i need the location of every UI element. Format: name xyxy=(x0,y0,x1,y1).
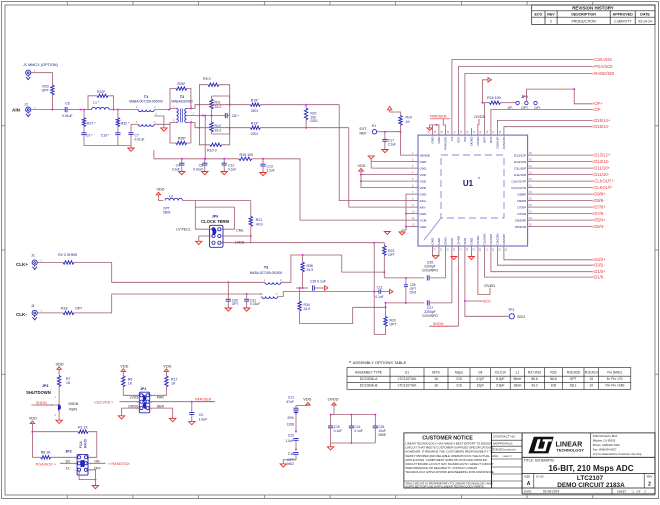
wire T3 secondary to rails xyxy=(281,255,342,282)
svg-text:E1: E1 xyxy=(372,124,376,128)
svg-text:Fin (MHz): Fin (MHz) xyxy=(607,370,621,374)
resistor R34 xyxy=(299,288,301,301)
svg-text:R8 1K: R8 1K xyxy=(41,451,51,455)
svg-text:CLK-: CLK- xyxy=(16,312,27,317)
svg-text:MABA-007159-000000: MABA-007159-000000 xyxy=(250,271,283,275)
svg-text:D3/D2P: D3/D2P xyxy=(502,234,506,245)
svg-text:JP3: JP3 xyxy=(42,384,48,388)
svg-text:ASSEMBLY TYPE: ASSEMBLY TYPE xyxy=(355,370,383,374)
svg-text:8.2pF: 8.2pF xyxy=(496,377,504,381)
svg-text:GND: GND xyxy=(431,237,435,245)
svg-text:OFP: OFP xyxy=(483,137,487,143)
svg-text:49.9: 49.9 xyxy=(256,222,263,226)
svg-text:BITS: BITS xyxy=(432,370,440,374)
wire CLK+ to T3 xyxy=(74,263,265,283)
capacitor C30 xyxy=(227,282,229,299)
power arrow VDD for R14 xyxy=(388,107,392,110)
svg-text:VDD: VDD xyxy=(420,186,427,190)
svg-text:D11/10P: D11/10P xyxy=(514,166,526,170)
svg-text:R16 100: R16 100 xyxy=(487,96,500,100)
svg-text:Milpitas, CA 95035: Milpitas, CA 95035 xyxy=(593,439,616,443)
wire C27 row xyxy=(386,302,425,304)
svg-text:OPT: OPT xyxy=(390,323,397,327)
svg-text:R12: R12 xyxy=(215,124,221,128)
svg-text:J3: J3 xyxy=(31,254,35,258)
svg-text:LVDS: LVDS xyxy=(130,396,140,400)
svg-text:« RAND/SDI: « RAND/SDI xyxy=(108,462,129,466)
svg-text:MABA-007159-000000: MABA-007159-000000 xyxy=(129,100,163,104)
svg-text:«D9/8+: «D9/8+ xyxy=(592,192,606,197)
svg-text:MABAES0060: MABAES0060 xyxy=(171,99,192,103)
wire T1 secondary left to C7 xyxy=(131,123,138,125)
svg-text:VDD: VDD xyxy=(420,179,427,183)
ground arrow near R23 xyxy=(384,232,390,235)
svg-text:«PGA/SCK: «PGA/SCK xyxy=(592,64,613,69)
svg-text:DATE: DATE xyxy=(640,13,650,17)
svg-text:J1 MMCX (OPTION): J1 MMCX (OPTION) xyxy=(23,63,59,67)
svg-text:D15/14N: D15/14N xyxy=(502,137,506,149)
wire AIN line xyxy=(33,109,65,111)
svg-text:16: 16 xyxy=(434,377,438,381)
svg-text:5< Fin <70: 5< Fin <70 xyxy=(607,377,623,381)
svg-text:OVDD: OVDD xyxy=(476,235,480,245)
svg-text:16: 16 xyxy=(434,384,438,388)
svg-text:VDD: VDD xyxy=(120,364,128,368)
resistor R7 xyxy=(57,376,60,387)
svg-text:0.1uF: 0.1uF xyxy=(334,429,342,433)
svg-text:0603: 0603 xyxy=(163,210,171,214)
ground JP2 loop xyxy=(79,470,95,480)
svg-text:«CS/LVDS: «CS/LVDS xyxy=(592,57,612,62)
svg-text:GND: GND xyxy=(420,160,428,164)
svg-text:SHUTDOWN: SHUTDOWN xyxy=(26,390,51,395)
wire T2 center tap to VCM rail xyxy=(204,116,206,159)
svg-text:T1: T1 xyxy=(144,95,148,99)
wire JP6 pin3 ground xyxy=(199,236,212,241)
wire SCK to PGA/SCK xyxy=(458,67,592,129)
wire T1 to T2 lower xyxy=(154,123,176,125)
ground JP1 left xyxy=(122,408,141,416)
svg-text:REF: REF xyxy=(360,131,368,135)
svg-text:*: * xyxy=(478,177,480,183)
svg-text:1630 McCarthy Blvd.: 1630 McCarthy Blvd. xyxy=(593,434,618,438)
test point TP1 xyxy=(465,301,509,316)
svg-text:Phone: (408)432-1900: Phone: (408)432-1900 xyxy=(593,443,620,447)
svg-text:1206: 1206 xyxy=(287,423,295,427)
svg-text:*: * xyxy=(349,360,351,365)
svg-text:L1 *: L1 * xyxy=(93,100,100,104)
svg-text:0402: 0402 xyxy=(287,462,295,466)
svg-text:LV PECL: LV PECL xyxy=(176,228,191,232)
resistor R23 xyxy=(383,243,385,246)
svg-text:REVISION HISTORY: REVISION HISTORY xyxy=(572,6,614,11)
svg-text:SHEET: SHEET xyxy=(617,489,627,493)
svg-text:24.9: 24.9 xyxy=(307,268,314,272)
svg-text:D5/D4N: D5/D4N xyxy=(515,225,526,229)
svg-text:OPT: OPT xyxy=(570,377,577,381)
svg-text:D15/14P: D15/14P xyxy=(496,137,500,149)
svg-text:0.1uF: 0.1uF xyxy=(354,429,362,433)
svg-text:OVDD: OVDD xyxy=(474,115,485,119)
ground arrow U1 top GND pins xyxy=(432,125,439,128)
wire LVDS clock line from JP6 xyxy=(222,242,384,244)
svg-text:TITLE: SCHEMATIC: TITLE: SCHEMATIC xyxy=(524,459,555,463)
ground for J1 xyxy=(27,75,29,77)
net PAR/SER at JP1 xyxy=(149,401,215,403)
svg-text:D9/8N: D9/8N xyxy=(517,199,526,203)
svg-text:ECO: ECO xyxy=(535,13,543,17)
wire to L1 xyxy=(81,109,92,111)
svg-text:R15 100: R15 100 xyxy=(240,153,254,157)
svg-text:R26,R28: R26,R28 xyxy=(567,370,580,374)
svg-text:SDO: SDO xyxy=(517,315,525,319)
svg-text:TP1: TP1 xyxy=(508,308,514,312)
svg-text:SHDN: SHDN xyxy=(433,322,444,326)
svg-text:0201: 0201 xyxy=(251,132,259,136)
svg-text:C.MAYOTT: C.MAYOTT xyxy=(502,455,513,458)
svg-text:SHDN: SHDN xyxy=(457,236,461,245)
resistor R37 across pair xyxy=(305,104,307,106)
resistor R6 xyxy=(122,376,125,387)
svg-text:APPROVED: APPROVED xyxy=(613,13,634,17)
svg-text:33.2: 33.2 xyxy=(215,105,222,109)
svg-text:VDD: VDD xyxy=(56,362,64,366)
svg-text:1.0uF: 1.0uF xyxy=(199,417,208,421)
svg-text:R10 0: R10 0 xyxy=(207,148,217,152)
svg-text:0201: 0201 xyxy=(311,119,319,123)
U1 bottom pins xyxy=(431,234,509,253)
svg-text:IC NO.: IC NO. xyxy=(536,475,545,479)
wire lower line through box xyxy=(199,127,229,129)
svg-text:1K: 1K xyxy=(128,382,133,386)
svg-text:«RAND/SDI: «RAND/SDI xyxy=(592,71,614,76)
wire D15/14N to label xyxy=(504,127,592,128)
svg-text:03-18-2014: 03-18-2014 xyxy=(543,489,560,493)
svg-text:VDD: VDD xyxy=(420,173,427,177)
svg-text:«OF-: «OF- xyxy=(592,107,602,112)
svg-text:0.01uF: 0.01uF xyxy=(62,114,73,118)
svg-text:70< Fin <180: 70< Fin <180 xyxy=(605,384,625,388)
svg-text:OPT: OPT xyxy=(232,302,239,306)
svg-text:GND: GND xyxy=(420,166,428,170)
resistor R20 xyxy=(384,316,387,326)
op-amp U1 LTC2107 xyxy=(418,135,528,246)
svg-text:ENC+: ENC+ xyxy=(444,236,448,245)
svg-text:C9 *: C9 * xyxy=(86,134,93,138)
svg-text:86.6: 86.6 xyxy=(550,377,557,381)
capacitor C15 xyxy=(330,415,332,426)
svg-text:CS: CS xyxy=(450,137,454,141)
svg-text:EXT: EXT xyxy=(360,127,368,131)
svg-text:1K: 1K xyxy=(171,382,176,386)
svg-text:R26*: R26* xyxy=(178,82,186,86)
svg-text:R2 0 OHMS: R2 0 OHMS xyxy=(58,253,78,257)
wire JP6 pin4 to R21 xyxy=(221,235,251,237)
svg-text:D9/8P: D9/8P xyxy=(517,192,526,196)
resistor R21 xyxy=(250,201,252,217)
wire center tap mid rail xyxy=(187,115,226,117)
svg-text:«D7/6+: «D7/6+ xyxy=(592,205,606,210)
svg-text:33.2: 33.2 xyxy=(215,128,222,132)
svg-text:«D3/2-: «D3/2- xyxy=(592,263,605,268)
svg-text:VDD: VDD xyxy=(157,188,165,192)
svg-text:CS/LVDS »: CS/LVDS » xyxy=(94,401,113,405)
svg-text:4.7pF: 4.7pF xyxy=(476,377,484,381)
svg-text:«D13/12-: «D13/12- xyxy=(592,159,610,164)
svg-text:10: 10 xyxy=(589,384,593,388)
svg-text:AIN: AIN xyxy=(12,107,21,112)
svg-text:R11: R11 xyxy=(215,101,221,105)
svg-text:«D13/12+: «D13/12+ xyxy=(592,153,611,158)
wire OFN to OF- xyxy=(491,110,592,129)
svg-text:«D15/14-: «D15/14- xyxy=(592,124,610,129)
svg-text:18nH: 18nH xyxy=(513,384,522,388)
svg-text:RAND: RAND xyxy=(84,438,88,448)
ground OVDD bank xyxy=(331,442,376,444)
svg-text:CML: CML xyxy=(236,229,244,233)
svg-text:R33: R33 xyxy=(550,370,556,374)
svg-text:OF: OF xyxy=(637,489,641,493)
svg-text:VDD: VDD xyxy=(358,164,366,168)
svg-text:D5/D4P: D5/D4P xyxy=(515,218,526,222)
svg-text:D7/6P: D7/6P xyxy=(517,205,526,209)
capacitor C8 xyxy=(224,113,226,118)
svg-text:0.1uF: 0.1uF xyxy=(228,168,236,172)
svg-text:C.MAYOTT: C.MAYOTT xyxy=(614,19,631,23)
wire AIN- drop to U1 xyxy=(349,128,411,207)
wire lower signal line xyxy=(230,127,251,129)
svg-text:R18: R18 xyxy=(61,307,67,311)
svg-text:GND: GND xyxy=(437,237,441,245)
capacitor C3 xyxy=(191,402,193,413)
svg-text:D1/D0P: D1/D0P xyxy=(489,234,493,245)
svg-text:68.1: 68.1 xyxy=(570,384,577,388)
svg-text:PAR/SER: PAR/SER xyxy=(430,115,447,119)
svg-text:C3: C3 xyxy=(199,413,203,417)
svg-text:0201: 0201 xyxy=(251,109,259,113)
svg-text:105: 105 xyxy=(551,384,557,388)
svg-text:VDD: VDD xyxy=(303,397,311,401)
svg-text:43.2: 43.2 xyxy=(531,384,538,388)
svg-text:1K: 1K xyxy=(406,120,411,124)
svg-text:COG/NPO: COG/NPO xyxy=(422,269,438,273)
power arrow OVDD right xyxy=(482,80,488,102)
U1 left pins xyxy=(411,152,430,229)
svg-text:GND: GND xyxy=(437,136,441,144)
svg-text:REV: REV xyxy=(547,13,555,17)
svg-text:0.1uF: 0.1uF xyxy=(375,295,383,299)
svg-text:«CLKOUT-: «CLKOUT- xyxy=(592,185,613,190)
svg-text:VDD: VDD xyxy=(29,417,37,421)
svg-text:«D5/4+: «D5/4+ xyxy=(592,218,606,223)
svg-text:03-14-14: 03-14-14 xyxy=(638,19,652,23)
net SHDN near U1 xyxy=(429,253,458,326)
svg-text:3.9pF: 3.9pF xyxy=(496,384,504,388)
ground arrows below U1 GND pins xyxy=(432,253,439,256)
ground rail below input caps xyxy=(84,145,131,147)
svg-text:R33*: R33* xyxy=(97,90,106,94)
wire J1 to R22 xyxy=(33,73,52,85)
wire to C26 row xyxy=(384,272,424,278)
svg-text:24.9: 24.9 xyxy=(304,307,311,311)
svg-text:«D1/0+: «D1/0+ xyxy=(592,269,606,274)
svg-text:C10 *: C10 * xyxy=(101,134,110,138)
svg-text:2: 2 xyxy=(648,482,651,488)
capacitor C27 xyxy=(426,300,428,305)
resistor R27 shunt xyxy=(83,110,85,118)
svg-text:0.01uF: 0.01uF xyxy=(135,138,145,142)
wire T3 upper to R23 node xyxy=(342,271,384,273)
svg-text:OVDD: OVDD xyxy=(476,136,480,146)
svg-text:VCM: VCM xyxy=(420,218,427,222)
svg-text:DC2183A-B: DC2183A-B xyxy=(360,384,378,388)
approvals block xyxy=(491,433,522,488)
svg-text:SIZE: SIZE xyxy=(524,475,530,479)
svg-text:AIN-: AIN- xyxy=(420,205,426,209)
svg-text:«CLKOUT+: «CLKOUT+ xyxy=(592,179,614,184)
svg-text:APPROVALS: APPROVALS xyxy=(495,441,513,445)
wire upper signal line xyxy=(230,104,251,106)
capacitor C31 xyxy=(246,294,248,299)
wire upper line through box xyxy=(199,104,229,106)
capacitor C17 xyxy=(384,131,386,133)
svg-text:DC2183A-A: DC2183A-A xyxy=(360,377,378,381)
title block frame xyxy=(522,433,655,494)
wire JP6 pin6 LVDS line xyxy=(221,242,222,244)
resistor R16 xyxy=(481,102,483,104)
svg-text:R27 *: R27 * xyxy=(87,122,96,126)
wire D15/14P to label xyxy=(497,121,592,129)
svg-text:L1: L1 xyxy=(516,370,520,374)
svg-text:PAR/SER: PAR/SER xyxy=(195,398,212,402)
wire T1 to T2 upper xyxy=(154,109,176,110)
svg-text:J4: J4 xyxy=(31,304,35,308)
svg-text:R13*: R13* xyxy=(251,122,259,126)
svg-text:ENG.: ENG. xyxy=(492,454,499,458)
wire CLK- to T3 xyxy=(74,294,263,313)
svg-text:R19,R13: R19,R13 xyxy=(585,370,598,374)
svg-text:C8: C8 xyxy=(478,370,482,374)
svg-text:86.6: 86.6 xyxy=(531,377,538,381)
svg-text:CLKOUTN: CLKOUTN xyxy=(511,186,526,190)
svg-text:GND: GND xyxy=(420,192,428,196)
svg-text:1.0uF: 1.0uF xyxy=(285,439,294,443)
svg-text:PGA: PGA xyxy=(79,441,83,449)
svg-text:D1/D0N: D1/D0N xyxy=(483,234,487,245)
svg-text:OFN: OFN xyxy=(489,137,493,144)
svg-text:OVDD: OVDD xyxy=(328,397,339,401)
wire SDI to RAND/SDI xyxy=(465,74,592,129)
wire CS to CS/LVDS xyxy=(452,60,592,129)
svg-text:J2: J2 xyxy=(25,103,29,107)
vertical bus1 xyxy=(373,243,375,296)
svg-text:«D7/6-: «D7/6- xyxy=(592,211,605,216)
termination inner box xyxy=(212,95,230,97)
svg-text:VDD: VDD xyxy=(163,364,171,368)
svg-text:GND: GND xyxy=(420,212,428,216)
svg-text:M.MAHONEY: M.MAHONEY xyxy=(504,449,517,452)
wire AIN+ drop to U1 xyxy=(339,105,411,201)
svg-text:0.01uF: 0.01uF xyxy=(193,168,203,172)
svg-text:JP1: JP1 xyxy=(140,387,146,391)
svg-text:R32 *: R32 * xyxy=(121,122,130,126)
svg-text:C8 *: C8 * xyxy=(232,114,239,118)
svg-text:«D1/0-: «D1/0- xyxy=(592,275,605,280)
wires right data pins to labels xyxy=(535,155,592,227)
svg-text:AIN+: AIN+ xyxy=(420,199,427,203)
svg-text:COG/NPO: COG/NPO xyxy=(422,314,438,318)
svg-text:1X: 1X xyxy=(65,466,70,470)
svg-text:SDI: SDI xyxy=(463,136,467,141)
svg-text:56nH: 56nH xyxy=(513,377,522,381)
svg-text:T3: T3 xyxy=(264,265,268,269)
svg-text:CLOCK TERM: CLOCK TERM xyxy=(201,219,229,224)
U1 top pins xyxy=(428,128,507,150)
svg-text:DEMO CIRCUIT 2183A: DEMO CIRCUIT 2183A xyxy=(557,482,625,489)
svg-text:0.1uF: 0.1uF xyxy=(172,168,180,172)
svg-text:0201: 0201 xyxy=(410,290,417,294)
svg-text:15: 15 xyxy=(589,377,593,381)
svg-text:ASSEMBLY OPTIONS TABLE: ASSEMBLY OPTIONS TABLE xyxy=(353,360,407,365)
svg-text:16-BIT, 210 Msps ADC: 16-BIT, 210 Msps ADC xyxy=(548,464,633,473)
svg-text:SDO: SDO xyxy=(463,237,467,244)
svg-text:1K: 1K xyxy=(66,381,71,385)
svg-text:OVDD: OVDD xyxy=(484,284,495,288)
svg-text:Msps: Msps xyxy=(455,370,463,374)
svg-text:SER: SER xyxy=(157,404,165,408)
svg-text:R9 0: R9 0 xyxy=(203,77,211,81)
svg-text:SCK: SCK xyxy=(457,136,461,143)
capacitor C25 xyxy=(374,415,376,426)
svg-text:D13/12P: D13/12P xyxy=(514,153,526,157)
svg-text:47uF: 47uF xyxy=(286,400,294,404)
ground for U1 pins 2-3 xyxy=(371,156,411,162)
svg-text:«D11/10+: «D11/10+ xyxy=(592,166,611,171)
svg-text:2.2uF: 2.2uF xyxy=(267,169,275,173)
wire SDO xyxy=(465,253,482,301)
svg-text:GND: GND xyxy=(470,237,474,245)
Linear Technology logo xyxy=(528,437,553,454)
resistor R17 xyxy=(165,376,168,387)
wire OVDD pin stub xyxy=(478,253,490,294)
svg-text:C9,C10: C9,C10 xyxy=(495,370,506,374)
wire VCM rail xyxy=(154,158,239,160)
svg-text:C21: C21 xyxy=(288,396,294,400)
svg-text:2: 2 xyxy=(550,19,552,23)
svg-text:R28*: R28* xyxy=(178,137,186,141)
wire T2 secondary outputs xyxy=(187,108,191,110)
svg-text:JP2: JP2 xyxy=(65,450,71,454)
svg-text:CONTRACT NO.: CONTRACT NO. xyxy=(493,435,516,439)
svg-text:SHDN: SHDN xyxy=(36,401,47,405)
svg-text:D3/D2N: D3/D2N xyxy=(496,234,500,245)
svg-text:3/2: 3/2 xyxy=(65,460,70,464)
svg-text:OPT: OPT xyxy=(42,89,50,93)
svg-text:C6: C6 xyxy=(65,102,70,106)
customer notice box xyxy=(404,433,492,488)
svg-text:SENSE: SENSE xyxy=(420,153,431,157)
svg-text:«D3/2+: «D3/2+ xyxy=(592,257,606,262)
svg-text:2.2uF: 2.2uF xyxy=(388,142,396,146)
svg-text:RUN: RUN xyxy=(69,407,77,411)
svg-text:DATE:: DATE: xyxy=(524,489,532,493)
svg-text:GND: GND xyxy=(420,225,428,229)
svg-text:12pF: 12pF xyxy=(476,384,484,388)
revision history table xyxy=(532,5,655,24)
svg-text:R27,R32: R27,R32 xyxy=(528,370,541,374)
svg-text:PAR: PAR xyxy=(157,396,164,400)
svg-text:20%: 20% xyxy=(287,416,294,420)
